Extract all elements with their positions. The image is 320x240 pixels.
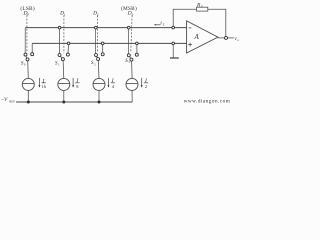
svg-text:0: 0 [27,13,29,17]
svg-text:(LSB): (LSB) [20,5,35,12]
svg-text:1: 1 [64,13,66,17]
svg-text:F: F [201,4,203,8]
svg-text:2: 2 [97,13,99,17]
svg-text:A: A [193,33,199,41]
svg-text:REF: REF [9,99,15,103]
svg-text:2: 2 [145,84,147,89]
svg-text:Σ: Σ [163,23,165,27]
svg-text:R: R [196,2,201,8]
svg-text:3: 3 [132,13,134,17]
svg-text:−V: −V [1,97,8,103]
svg-text:www.diangon.com: www.diangon.com [184,99,231,105]
